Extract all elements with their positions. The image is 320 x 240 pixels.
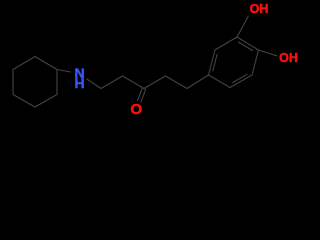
wire cyclohexane bond C6-C1 — [13, 57, 35, 70]
wire bond C7-C8 — [101, 76, 123, 89]
svg-text:OH: OH — [250, 2, 269, 16]
wire aromatic inner stroke Ar3=Ar4 — [239, 42, 253, 51]
wire cyclohexane bond C4-C5 — [13, 95, 35, 108]
wire aromatic inner stroke Ar1=Ar2 — [213, 54, 217, 70]
wire bond C9-C10 — [144, 76, 166, 89]
wire cyclohexane bond C1-C2 — [35, 57, 57, 70]
wire benzene bond Ar3-Ar4 — [237, 37, 259, 50]
wire cyclohexane bond C2-C3 — [56, 70, 58, 95]
wire aromatic inner stroke Ar5=Ar6 — [233, 74, 247, 82]
wire benzene bond Ar6-Ar1 — [209, 75, 231, 88]
wire benzene bond Ar1-Ar2 — [209, 50, 216, 75]
svg-text:H: H — [74, 75, 84, 91]
wire cyclohexane bond C3-C4 — [35, 95, 57, 108]
wire C9=O double bond — [138, 88, 146, 102]
wire benzene bond Ar2-Ar3 — [215, 37, 237, 50]
wire bond C8-C9 (carbonyl C) — [123, 76, 145, 89]
wire bond C11-Ar — [187, 75, 209, 89]
wire bond Ar3-OH — [237, 16, 248, 37]
wire bond C1-N — [57, 70, 71, 73]
wire bond Ar4-OH — [259, 50, 277, 56]
wire benzene bond Ar4-Ar5 — [252, 50, 259, 75]
wire bond N-C7 — [87, 79, 101, 89]
svg-text:O: O — [130, 101, 142, 118]
svg-text:OH: OH — [279, 51, 298, 65]
wire cyclohexane bond C5-C6 — [12, 70, 14, 95]
wire benzene bond Ar5-Ar6 — [230, 75, 252, 88]
wire bond C10-C11 — [166, 76, 188, 89]
